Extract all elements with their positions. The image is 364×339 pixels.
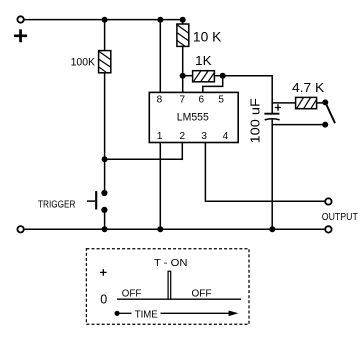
svg-text:100K: 100K [71, 56, 96, 68]
junction top rail at 100K [102, 17, 108, 23]
junction top rail at pin 8 [157, 17, 163, 23]
svg-text:1K: 1K [195, 53, 212, 68]
resistor R1 100K body [99, 51, 111, 73]
wire 4.7K left lead [272, 102, 295, 104]
supply plus symbol [14, 29, 27, 42]
junction trigger node [102, 156, 108, 162]
svg-text:7: 7 [180, 95, 186, 106]
terminal output top [325, 198, 331, 204]
svg-text:TRIGGER: TRIGGER [38, 199, 76, 210]
timing diagram dashed frame [86, 249, 249, 325]
svg-text:TIME: TIME [135, 309, 158, 320]
wire capacitor bottom to ground rail [271, 120, 273, 229]
capacitor C1 bottom plate [265, 119, 280, 120]
pushbutton S2 trigger bar [95, 191, 97, 209]
terminal output bottom [325, 226, 331, 232]
wire 100K top lead [104, 20, 106, 51]
wire 1K node to capacitor top [223, 75, 273, 77]
pushbutton S2 trigger stem [87, 200, 95, 202]
svg-text:2: 2 [180, 131, 186, 142]
svg-text:OFF: OFF [192, 288, 212, 299]
junction ground rail at pin 1 [157, 226, 163, 232]
svg-text:T - ON: T - ON [154, 258, 188, 269]
capacitor C1 top plate [264, 113, 279, 115]
svg-text:5: 5 [218, 95, 224, 106]
wire bottom ground rail [24, 228, 325, 230]
terminal supply positive [17, 16, 23, 22]
wire pin 8 to supply rail [159, 20, 161, 93]
wire 10K bottom to pin 7 [182, 46, 184, 92]
timing axis start dot [115, 311, 120, 316]
svg-text:4: 4 [223, 131, 229, 142]
wire 10K top lead [182, 20, 184, 24]
timing plus label [100, 269, 107, 276]
wire 4.7K right lead [317, 102, 323, 104]
capacitor C1 polarity plus [275, 104, 281, 111]
switch S1 blade [326, 103, 335, 123]
wire pin 2 lead [181, 143, 183, 160]
wire 100K bottom to trigger top contact [104, 73, 106, 193]
wire 1K node to pin 6 jog [203, 76, 223, 93]
switch S1 contact top [322, 99, 328, 105]
svg-text:100 uF: 100 uF [249, 98, 263, 144]
timing baseline [117, 298, 241, 300]
svg-text:10 K: 10 K [193, 29, 221, 44]
pushbutton S2 contact bottom [101, 207, 107, 213]
resistor R2 10K body [177, 24, 189, 46]
svg-text:OFF: OFF [122, 288, 142, 299]
timing axis segment right [161, 312, 230, 314]
wire trigger bottom contact to ground rail [104, 210, 106, 229]
terminal supply negative [17, 226, 23, 232]
switch S1 contact bottom [322, 122, 328, 128]
junction top rail at 10K [180, 17, 186, 23]
timing pulse [168, 271, 171, 299]
svg-text:3: 3 [201, 131, 207, 142]
junction ground rail at trigger [102, 226, 108, 232]
svg-text:OUTPUT: OUTPUT [322, 212, 358, 223]
wire top supply rail [24, 19, 183, 21]
wire 1K left lead [183, 75, 193, 77]
junction 1K right node [220, 73, 226, 79]
wire pin 3 to output terminal [205, 143, 325, 202]
svg-text:8: 8 [157, 95, 163, 106]
svg-text:LM555: LM555 [177, 112, 209, 124]
wire 1K right lead [214, 75, 222, 77]
svg-text:1: 1 [157, 131, 163, 142]
resistor R3 1K body [193, 71, 215, 82]
wire capacitor top lead [271, 76, 273, 113]
junction 1K left node [180, 73, 186, 79]
wire trigger node to pin 2 [105, 158, 183, 160]
pushbutton S2 contact top [101, 190, 107, 196]
svg-text:6: 6 [199, 95, 205, 106]
svg-text:0: 0 [100, 293, 107, 307]
timing axis segment left [120, 312, 132, 314]
op-amp U1 LM555 body [149, 92, 238, 142]
junction ground rail at capacitor [269, 226, 275, 232]
wire switch return to capacitor bottom [272, 124, 325, 126]
svg-text:4.7 K: 4.7 K [292, 80, 325, 95]
wire pin 1 to ground rail [159, 143, 161, 230]
resistor R4 4.7K body [296, 97, 317, 108]
timing axis arrowhead [229, 311, 239, 317]
